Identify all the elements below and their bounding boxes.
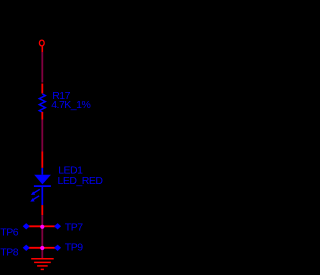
svg-text:TP8: TP8 [0,247,18,259]
svg-text:4.7K_1%: 4.7K_1% [51,99,90,111]
svg-text:TP9: TP9 [65,241,83,253]
wire [41,248,43,258]
junction dot row 1 [40,225,44,229]
LED1 anode pin [41,152,43,168]
wire [41,226,43,248]
ground [31,259,54,270]
svg-text:TP7: TP7 [65,222,83,234]
port circle (power node) [39,40,44,52]
test point TP9 pin [42,247,57,249]
wire [41,120,43,152]
test point TP6 pin [26,225,42,227]
LED1 cathode pin [41,205,43,215]
LED D1 symbol [34,168,51,205]
test point TP8 marker [23,245,30,251]
test point TP9 marker [54,245,61,251]
wire [41,215,43,226]
svg-text:TP6: TP6 [0,227,18,239]
svg-text:LED_RED: LED_RED [58,175,104,187]
test point TP7 marker [54,223,61,229]
LED light arrow 1 [31,189,40,195]
resistor R1 pin 2 [41,112,43,120]
wire [41,52,43,83]
junction dot row 2 [40,246,44,250]
resistor R17 [39,94,45,112]
test point TP8 pin [26,247,42,249]
test point TP7 pin [42,225,57,227]
resistor R1 pin 1 [41,84,43,94]
test point TP6 marker [23,223,30,229]
LED light arrow 2 [30,196,39,202]
